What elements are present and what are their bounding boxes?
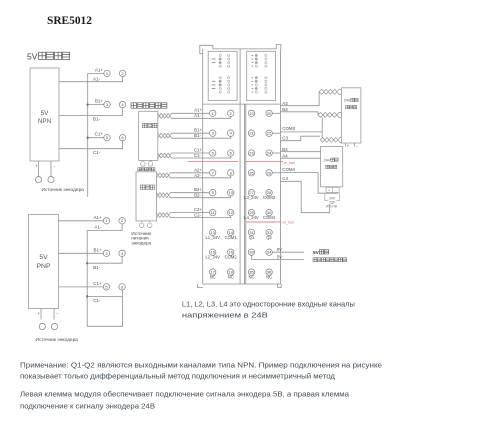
terminal 10: [228, 190, 234, 196]
terminal 28: [266, 190, 272, 196]
svg-text:B2+: B2+: [194, 187, 202, 192]
svg-text:6: 6: [230, 150, 232, 155]
svg-text:23: 23: [249, 150, 253, 155]
svg-text:ov_had: ov_had: [283, 221, 294, 225]
terminal 19: [248, 110, 254, 116]
svg-text:C2-: C2-: [194, 212, 202, 217]
svg-text:5V: 5V: [27, 52, 38, 62]
terminal 23: [248, 150, 254, 156]
svg-text:ov_had: ov_had: [284, 161, 295, 165]
svg-text:C3: C3: [282, 135, 288, 140]
label 5V output note: [313, 258, 317, 262]
svg-text:Левая клемма модуля обеспечива: Левая клемма модуля обеспечивает подключ…: [20, 389, 350, 398]
terminal 35: [248, 269, 254, 275]
terminal 20: [266, 110, 272, 116]
svg-text:A3: A3: [282, 101, 288, 106]
wire NPN supply drops: [39, 161, 52, 176]
terminal ref 5 PNP: [103, 284, 109, 290]
terminal 24: [266, 150, 272, 156]
wire B1- PNP: [87, 257, 122, 264]
wire C1- to module: [172, 156, 231, 158]
svg-text:L3_24V: L3_24V: [244, 195, 259, 200]
twisted pair coil C3: [320, 137, 340, 142]
twisted pair coil B2: [157, 193, 171, 198]
wire C1+ NPN: [88, 137, 104, 139]
encoder2 power terminals: [142, 221, 150, 222]
wire B1- NPN: [59, 108, 123, 116]
wire 5V output: [252, 255, 305, 259]
twisted pair coil A1: [158, 113, 172, 118]
svg-text:12: 12: [229, 210, 233, 215]
terminal 8: [228, 170, 234, 176]
svg-text:2: 2: [122, 71, 124, 76]
terminal 33: [248, 249, 254, 255]
twisted pair coil A3: [319, 89, 339, 94]
wire C1+ to module: [172, 152, 210, 154]
wire A1+ PNP: [59, 220, 104, 222]
svg-text:6: 6: [122, 135, 124, 140]
terminal 7: [210, 170, 216, 176]
svg-text:0V: 0V: [277, 247, 282, 252]
terminal 31: [248, 229, 254, 235]
module LED panel left: [208, 51, 237, 100]
wire 0V output: [272, 251, 304, 253]
encoder1 power terminals: [143, 159, 151, 162]
wire A1- to module: [172, 117, 231, 119]
wire coil C3 to box: [340, 137, 341, 142]
terminal ref 3 PNP: [103, 250, 109, 256]
svg-text:+: +: [38, 311, 41, 316]
wire A1- NPN: [59, 77, 123, 82]
svg-text:NPN: NPN: [38, 118, 52, 125]
svg-text:+: +: [35, 164, 38, 169]
encoder box 24V single-ended: [321, 147, 343, 187]
svg-text:A2+: A2+: [194, 167, 202, 172]
svg-text:21: 21: [249, 131, 253, 136]
wire C2+ to module: [170, 212, 209, 214]
wire C1- NPN: [59, 141, 123, 149]
wire stub terminal 24: [272, 152, 280, 154]
wire B1+ PNP: [59, 252, 104, 254]
terminal 2: [228, 110, 234, 116]
svg-text:B1+: B1+: [95, 99, 104, 104]
svg-text:7: 7: [212, 170, 214, 175]
terminal ref 6 NPN: [119, 135, 125, 141]
svg-text:9: 9: [212, 190, 214, 195]
wire PNP supply drops: [41, 309, 54, 320]
terminal 16: [228, 249, 234, 255]
svg-text:24V: 24V: [324, 158, 331, 162]
svg-text:C2+: C2+: [194, 207, 203, 212]
svg-text:A2-: A2-: [194, 173, 201, 178]
svg-text:COM4: COM4: [263, 215, 276, 220]
svg-text:энкодера: энкодера: [131, 241, 151, 246]
terminal 29: [248, 209, 254, 215]
terminal 6: [228, 150, 234, 156]
terminal 36: [266, 269, 272, 275]
PNP supply terminal a: [39, 323, 45, 329]
svg-text:6: 6: [121, 284, 123, 289]
terminal 14: [228, 229, 234, 235]
svg-text:22: 22: [267, 131, 271, 136]
wire PNP bottom loop: [87, 296, 122, 326]
svg-text:A1+: A1+: [194, 108, 202, 113]
wire C1+ PNP: [59, 286, 104, 288]
terminal ref 5 NPN: [104, 135, 110, 141]
svg-text:11: 11: [211, 210, 215, 215]
terminal 4: [228, 130, 234, 136]
wire C1- PNP: [87, 290, 122, 296]
svg-text:24V: 24V: [329, 196, 336, 200]
svg-text:L2_24V: L2_24V: [205, 255, 220, 260]
svg-text:подключение к сигналу энкодера: подключение к сигналу энкодера 24В: [20, 401, 155, 410]
svg-text:C1+: C1+: [194, 147, 203, 152]
24V diff encoder supply ticks: [346, 143, 355, 147]
svg-text:показывает только дифференциал: показывает только дифференциальный метод…: [20, 371, 336, 380]
terminal ref 3 NPN: [104, 101, 110, 107]
wire B3: [281, 112, 319, 115]
terminal 21: [248, 130, 254, 136]
svg-text:3: 3: [212, 131, 214, 136]
svg-text:NC: NC: [228, 275, 234, 280]
encoder box 24V differential: [341, 88, 361, 143]
svg-text:-: -: [335, 189, 336, 193]
svg-text:B4: B4: [282, 147, 288, 152]
svg-text:24V: 24V: [344, 99, 351, 103]
terminal ref 1 NPN: [104, 70, 110, 76]
wire B1- to module: [172, 137, 231, 139]
terminal 15: [210, 249, 216, 255]
wire B1+ NPN: [88, 104, 104, 106]
module LED panel right: [247, 51, 276, 100]
svg-text:5: 5: [105, 284, 107, 289]
svg-text:33: 33: [249, 250, 253, 255]
svg-text:A1-: A1-: [194, 113, 201, 118]
terminal 30: [266, 209, 272, 215]
wire B2+ to module: [170, 192, 209, 194]
svg-text:2: 2: [121, 218, 123, 223]
NPN supply terminal a: [35, 177, 41, 183]
terminal 12: [228, 209, 234, 215]
svg-text:1: 1: [106, 71, 108, 76]
terminal 26: [266, 170, 272, 176]
wire C4: [281, 181, 330, 212]
svg-text:3: 3: [105, 251, 107, 256]
svg-text:L1, L2, L3, L4 это односторонн: L1, L2, L3, L4 это односторонние входные…: [182, 300, 355, 309]
encoder box 1 differential: [139, 111, 158, 160]
wire bus PNP minus rail: [86, 230, 88, 326]
junction PNP C1-: [86, 295, 88, 297]
terminal ref 4 PNP: [119, 250, 125, 256]
PNP supply terminal b: [52, 323, 58, 329]
red annotation line 1: [188, 161, 283, 163]
svg-text:1: 1: [105, 218, 107, 223]
junction NPN C1+: [87, 137, 89, 139]
svg-text:A1-: A1-: [94, 224, 102, 229]
encoder source box 5V NPN: [30, 68, 59, 161]
svg-text:B1-: B1-: [93, 117, 101, 122]
svg-text:C1-: C1-: [93, 150, 101, 155]
svg-text:B2-: B2-: [194, 193, 201, 198]
svg-text:COM3: COM3: [282, 126, 295, 131]
wire A1+ NPN: [88, 72, 104, 74]
svg-text:L1_24V: L1_24V: [205, 235, 220, 240]
svg-text:A1-: A1-: [93, 76, 101, 81]
svg-text:C1+: C1+: [93, 281, 102, 286]
wire coil A3 to box: [339, 89, 341, 94]
svg-text:5V: 5V: [39, 254, 48, 261]
wire C2- to module: [170, 216, 231, 218]
twisted pair coil B1: [158, 133, 172, 138]
terminal 5: [210, 150, 216, 156]
junction NPN B1+: [87, 104, 89, 106]
svg-text:Источник энкодера: Источник энкодера: [42, 187, 85, 193]
terminal ref 2 PNP: [119, 218, 125, 224]
terminal 13: [210, 229, 216, 235]
wire A1- PNP: [87, 224, 122, 230]
wire A3: [281, 92, 320, 106]
module case outline: [200, 45, 281, 54]
svg-text:B3: B3: [282, 107, 288, 112]
terminal ref 6 PNP: [119, 284, 125, 290]
svg-text:COM4: COM4: [282, 167, 295, 172]
svg-text:напряжением в 24В: напряжением в 24В: [182, 311, 268, 320]
svg-text:COM2: COM2: [225, 255, 238, 260]
wire COM3: [281, 131, 323, 133]
terminal 18: [228, 269, 234, 275]
svg-text:5: 5: [106, 135, 108, 140]
terminal 3: [210, 130, 216, 136]
terminal 1: [210, 110, 216, 116]
svg-text:19: 19: [249, 111, 253, 116]
wire A4: [281, 157, 321, 159]
svg-text:PNP: PNP: [37, 263, 51, 270]
wire stub terminal 26: [272, 172, 280, 174]
svg-text:C1+: C1+: [95, 132, 104, 137]
wire C3: [281, 136, 320, 141]
svg-text:3: 3: [106, 102, 108, 107]
wire bus NPN plus rail: [87, 73, 89, 197]
terminal 17: [210, 269, 216, 275]
svg-text:5V: 5V: [277, 254, 282, 259]
terminal 25: [248, 170, 254, 176]
svg-text:B1+: B1+: [194, 128, 202, 133]
terminal 34: [266, 249, 272, 255]
svg-text:ИП 24В: ИП 24В: [326, 204, 337, 208]
svg-text:C1-: C1-: [194, 153, 202, 158]
twisted pair coil C2: [157, 213, 171, 218]
twisted pair coil A2: [157, 173, 171, 178]
wire A2+ to module: [170, 172, 209, 174]
svg-text:5V: 5V: [313, 250, 320, 256]
label differential input connection: [131, 103, 136, 108]
junction PNP B1-: [86, 262, 88, 264]
svg-text:5: 5: [212, 150, 214, 155]
svg-text:2: 2: [230, 111, 232, 116]
twisted pair coil B3: [318, 112, 339, 117]
wire B1+ to module: [172, 132, 210, 134]
svg-text:Примечание: Q1-Q2 являются вых: Примечание: Q1-Q2 являются выходными кан…: [20, 360, 382, 369]
wire A1+ to module: [172, 112, 210, 114]
svg-text:A1+: A1+: [93, 215, 102, 220]
module divider: [240, 49, 246, 284]
terminal 11: [210, 209, 216, 215]
wire B4: [281, 151, 321, 153]
svg-text:+: +: [328, 189, 330, 193]
24V supply bracket: [325, 193, 340, 200]
twisted pair coil C1: [158, 153, 172, 158]
terminal ref 2 NPN: [119, 70, 125, 76]
wire stub terminal 20: [272, 112, 280, 114]
svg-text:SRE5012: SRE5012: [47, 15, 92, 27]
terminal 22: [266, 130, 272, 136]
wire B2- to module: [170, 196, 231, 198]
label encoder power cjk: [138, 168, 141, 171]
svg-text:NC: NC: [266, 275, 272, 280]
svg-text:NC: NC: [210, 275, 216, 280]
svg-text:8: 8: [230, 170, 232, 175]
svg-text:A1+: A1+: [95, 67, 104, 72]
24V supply mini box: [326, 187, 339, 192]
svg-text:B1-: B1-: [194, 133, 201, 138]
terminal 9: [210, 190, 216, 196]
svg-text:C4: C4: [282, 176, 288, 181]
terminal 32: [266, 229, 272, 235]
wire coil B3 to box: [339, 112, 341, 117]
svg-text:COM3: COM3: [263, 195, 276, 200]
red annotation line 2: [246, 221, 282, 223]
terminal ref 4 NPN: [119, 101, 125, 107]
svg-text:B1+: B1+: [93, 248, 102, 253]
svg-text:NC: NC: [248, 275, 254, 280]
svg-text:L4_24V: L4_24V: [244, 215, 259, 220]
terminal 27: [248, 190, 254, 196]
svg-text:Источник энкодера: Источник энкодера: [36, 337, 79, 343]
svg-text:26: 26: [267, 170, 271, 175]
wire COM4: [281, 173, 339, 194]
wire COM3 riser: [321, 117, 323, 137]
wire stub terminal 22: [272, 132, 280, 134]
svg-text:Q1: Q1: [249, 235, 255, 240]
NPN supply terminal b: [48, 177, 54, 183]
encoder source box 5V PNP: [29, 215, 59, 309]
svg-text:5V: 5V: [41, 110, 50, 117]
encoder box 2 differential: [136, 172, 157, 221]
wire A2- to module: [170, 176, 231, 178]
svg-text:C1-: C1-: [93, 298, 101, 303]
svg-text:COM1: COM1: [225, 235, 238, 240]
svg-text:B1-: B1-: [93, 265, 101, 270]
svg-text:A4: A4: [282, 153, 288, 158]
svg-text:25: 25: [249, 170, 253, 175]
svg-text:1: 1: [212, 111, 214, 116]
terminal ref 1 PNP: [103, 218, 109, 224]
svg-text:Q2: Q2: [266, 235, 272, 240]
